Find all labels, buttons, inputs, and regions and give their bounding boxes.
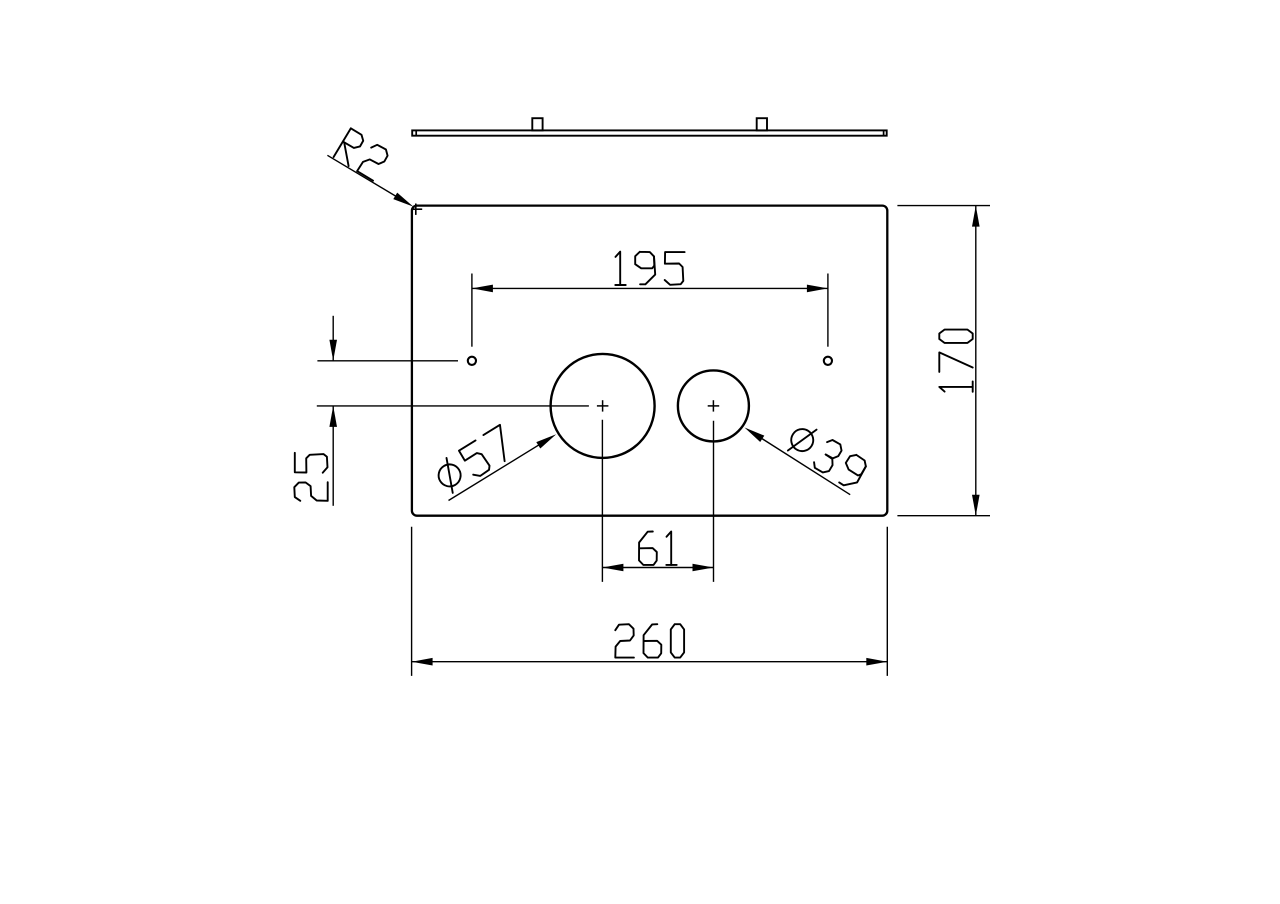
profile bar right end cap line — [883, 130, 885, 135]
dim 170 dimension line — [975, 206, 977, 516]
dim 260 arrow right — [866, 658, 887, 666]
dim text 170 — [939, 330, 972, 392]
profile view plate bar — [412, 130, 887, 135]
dim 195 arrow right — [807, 285, 828, 293]
dim 195 arrow left — [472, 285, 493, 293]
dim 25 extension line upper — [317, 360, 458, 362]
small button circle D39 — [678, 370, 749, 441]
profile mounting tab 2 — [757, 118, 767, 130]
profile bar left end cap line — [415, 130, 417, 135]
arrowhead D39 — [745, 428, 765, 443]
dim text 61 — [639, 532, 677, 565]
dim text 195 — [615, 252, 684, 285]
dim 260 extension line right — [886, 527, 888, 676]
corner radius center mark — [411, 208, 422, 210]
dim text 25 — [294, 453, 327, 501]
dim 260 dimension line — [412, 661, 888, 663]
dim 25 extension line lower — [317, 405, 589, 407]
leader line R2 — [327, 155, 404, 201]
center mark large circle — [597, 405, 609, 407]
dim 61 arrow left — [602, 564, 623, 572]
leader line D57 — [449, 439, 549, 500]
leader line D39 — [753, 433, 850, 495]
dim 61 dimension line — [602, 567, 713, 569]
dim 61 extension line right — [713, 421, 715, 582]
dim 25 dimension line upper — [332, 316, 334, 361]
dim text 260 — [615, 624, 684, 657]
fixing hole left — [468, 357, 476, 365]
arrowhead R2 — [393, 193, 413, 207]
dim 25 arrow up — [329, 406, 337, 427]
dim 25 arrow down — [329, 340, 337, 361]
dim 61 arrow right — [693, 564, 714, 572]
leader text D39 — [784, 420, 869, 491]
dim 170 extension line top — [897, 205, 990, 207]
plate outline rounded rectangle — [412, 206, 887, 516]
large button circle D57 — [551, 354, 655, 458]
text R2 — [334, 128, 391, 180]
dim 61 extension line left — [601, 420, 603, 582]
dim 260 extension line left — [411, 527, 413, 676]
dim 25 dimension line lower — [332, 406, 334, 506]
dim 170 extension line bottom — [897, 515, 990, 517]
leader text D57 — [431, 425, 517, 496]
profile mounting tab 1 — [532, 118, 542, 130]
dim 260 arrow left — [412, 658, 433, 666]
dim 170 arrow top — [972, 206, 980, 227]
dim 195 dimension line — [472, 287, 828, 289]
dim 170 arrow bottom — [972, 495, 980, 516]
dim 195 extension line right — [827, 274, 829, 347]
dim 195 extension line left — [471, 274, 473, 347]
fixing hole right — [824, 357, 832, 365]
center mark small circle — [708, 405, 720, 407]
arrowhead D57 — [536, 434, 556, 448]
